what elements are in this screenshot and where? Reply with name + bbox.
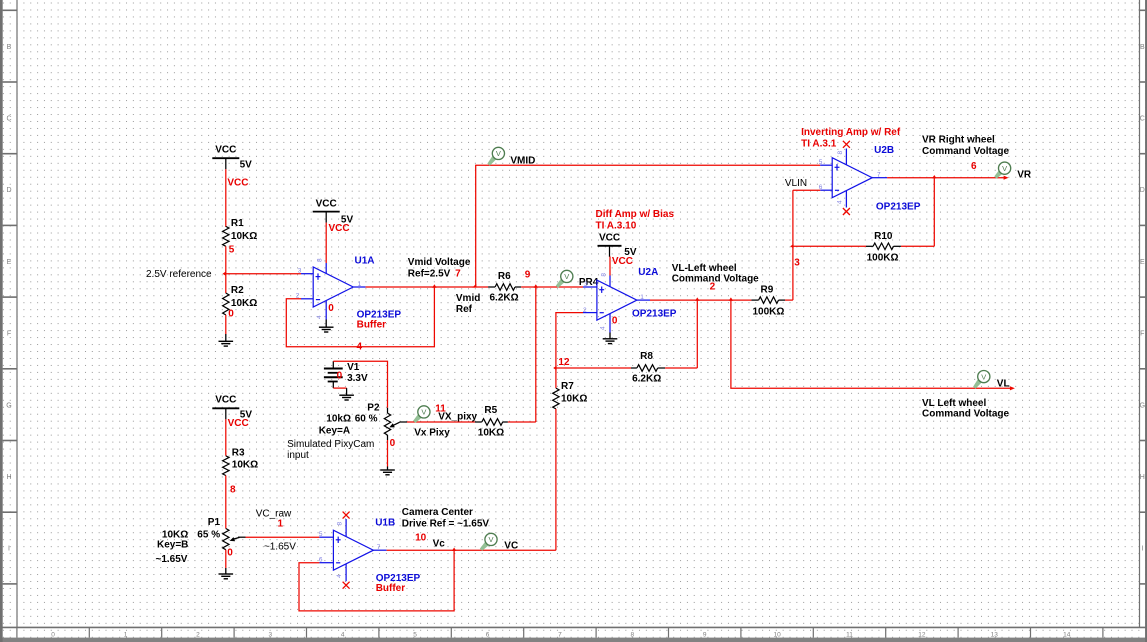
svg-text:P2: P2 [367,402,380,413]
svg-text:D: D [1140,187,1145,194]
svg-text:U2A: U2A [638,267,658,278]
wire U2A output to R9 [650,299,751,301]
pin 1 output stub U1A [353,286,365,288]
resistor R3 [223,456,229,476]
svg-text:V: V [981,372,986,381]
svg-text:2: 2 [710,282,716,293]
pin 3 stub U1A [301,273,313,275]
svg-text:4: 4 [341,631,345,638]
svg-text:7: 7 [558,631,562,638]
svg-text:U1B: U1B [375,518,395,529]
svg-text:R1: R1 [231,218,244,229]
svg-text:100KΩ: 100KΩ [753,306,785,317]
svg-text:8: 8 [630,631,634,638]
junction VMID riser [472,284,476,288]
svg-text:B: B [7,44,12,51]
svg-text:VCC: VCC [612,256,633,267]
wire VCC to U1A pin 8 [325,223,327,263]
op-amp U2B [832,158,872,198]
svg-text:Command Voltage: Command Voltage [922,146,1009,157]
svg-text:Key=A: Key=A [319,426,350,437]
svg-text:VX_pixy: VX_pixy [438,412,477,423]
svg-text:VCC: VCC [215,145,236,156]
svg-text:3: 3 [794,257,800,268]
svg-text:V: V [488,535,493,544]
probe PR4 [556,270,573,288]
probe VC [480,533,497,551]
svg-text:5: 5 [229,244,235,255]
svg-text:0: 0 [51,631,55,638]
svg-text:1: 1 [124,631,128,638]
svg-text:2: 2 [583,307,587,314]
svg-text:OP213EP: OP213EP [632,309,677,320]
svg-text:V: V [421,408,426,417]
pin 2 stub U1A [301,298,313,300]
wire R3 to P1 [225,476,227,529]
wire VLIN to U2B inverting input [793,189,820,191]
svg-text:11: 11 [846,631,853,638]
wire VCC to U2A pin 8 [609,257,611,276]
svg-text:G: G [6,402,11,409]
pin 7 output stub U2B [872,177,887,179]
pin 8 stub U2B (unconnected) [845,149,847,166]
pin 6 stub U2B [820,189,832,191]
ground (U1A pin 4) [319,320,334,333]
svg-text:Vmid Voltage: Vmid Voltage [408,257,471,268]
svg-text:0: 0 [337,371,343,382]
svg-text:VCC: VCC [228,418,249,429]
svg-text:8: 8 [316,258,323,262]
wire R5 to node 9 riser [508,421,536,423]
resistor R8 [631,365,665,372]
svg-text:R6: R6 [498,271,511,282]
svg-text:10KΩ: 10KΩ [232,460,258,471]
wire P2 bottom to ground [387,440,389,467]
wire V1 minus to ground [333,388,346,395]
junction node 9 [534,284,538,287]
svg-text:10KΩ: 10KΩ [478,427,504,438]
svg-text:Vmid: Vmid [456,293,480,304]
resistor R10 [866,243,901,250]
battery V1 [324,361,343,388]
svg-text:65 %: 65 % [197,529,220,540]
svg-text:input: input [287,450,309,461]
svg-text:Drive Ref = ~1.65V: Drive Ref = ~1.65V [402,518,490,529]
svg-text:Diff Amp w/ Bias: Diff Amp w/ Bias [596,209,675,220]
svg-text:2: 2 [196,631,200,638]
svg-text:I: I [1141,546,1143,553]
svg-text:1: 1 [358,281,362,288]
wire node 9 riser down to VX net [535,287,537,422]
svg-text:Simulated PixyCam: Simulated PixyCam [287,439,374,450]
svg-text:R8: R8 [640,351,653,362]
svg-text:10: 10 [415,533,427,544]
svg-text:3.3V: 3.3V [347,373,368,384]
wire VL net [731,300,1012,388]
no-connect X (U2B pin 8) [843,141,850,148]
pin 8 stub U1B (unconnected) [345,519,347,537]
wire P1 bottom to ground [225,550,227,568]
svg-text:2.5V reference: 2.5V reference [146,269,212,280]
svg-text:Ref: Ref [456,304,473,315]
svg-text:6: 6 [486,631,490,638]
pin 4 stub U1A (to ground) [325,301,327,320]
svg-text:VR: VR [1017,169,1032,180]
resistor R2 [223,293,229,315]
wire end arrow (VR) [1004,176,1009,180]
svg-text:0: 0 [228,309,234,320]
label Vmid Ref [456,293,480,315]
svg-text:9: 9 [703,631,707,638]
svg-text:VCC: VCC [599,233,620,244]
svg-text:12: 12 [918,631,926,638]
svg-text:Vc: Vc [433,538,446,549]
wire R8 to output riser [665,367,697,369]
svg-text:OP213EP: OP213EP [876,202,921,213]
svg-text:8: 8 [337,522,344,526]
junction U1A feedback tap [432,284,436,287]
wire U1A feedback (output to inverting input) [286,287,434,347]
svg-text:PR4: PR4 [579,277,599,288]
svg-text:R5: R5 [484,405,497,416]
svg-text:6.2KΩ: 6.2KΩ [490,293,519,304]
wire R1 to node 5 [225,246,227,273]
svg-text:G: G [1140,402,1145,409]
svg-text:Command Voltage: Command Voltage [922,409,1009,420]
wire U1B output to Vc corner [387,549,556,551]
svg-text:9: 9 [525,269,531,280]
pin 1 output stub U2A [637,299,650,301]
svg-text:VLIN: VLIN [785,178,807,189]
svg-text:8: 8 [837,151,844,155]
svg-text:3: 3 [584,281,588,288]
svg-text:R7: R7 [561,381,574,392]
wire end arrow (VL) [1010,386,1015,390]
svg-text:TI A.3.10: TI A.3.10 [596,221,637,232]
svg-text:Command Voltage: Command Voltage [672,274,759,285]
svg-text:14: 14 [1063,631,1071,638]
junction node 12 [553,366,556,370]
wire P2 wiper to R5 [407,421,475,423]
svg-text:VL Left wheel: VL Left wheel [922,398,986,409]
ground (V1) [339,395,354,400]
svg-text:Ref=2.5V: Ref=2.5V [408,269,451,280]
svg-text:10KΩ: 10KΩ [231,231,257,242]
svg-text:F: F [1140,331,1144,338]
svg-text:100KΩ: 100KΩ [867,253,899,264]
svg-text:7: 7 [377,544,381,551]
probe VX_pixy [413,406,430,423]
wire U1B feedback loop [299,550,454,611]
svg-text:10kΩ: 10kΩ [326,414,351,425]
svg-text:R9: R9 [761,285,774,296]
resistor R6 [488,284,521,291]
potentiometer P2 [384,408,407,440]
svg-text:4: 4 [599,326,606,330]
pin 2 stub U2A [583,312,597,314]
pin 5 stub U2B [820,164,832,166]
svg-text:5: 5 [413,631,417,638]
svg-text:H: H [1140,474,1145,481]
power VCC symbol (above U2A) [598,233,622,257]
svg-text:10: 10 [773,631,781,638]
svg-text:7: 7 [877,172,881,179]
power VCC symbol (above U1A) [313,198,340,222]
svg-text:R10: R10 [874,231,893,242]
wire VCC to R3 [225,419,227,456]
svg-text:I: I [8,546,10,553]
svg-text:~1.65V: ~1.65V [264,541,296,552]
wire node 5 to R2 [225,274,227,294]
svg-text:C: C [1140,115,1145,122]
pin 5 stub U1B [319,536,333,538]
op-amp U1B [333,530,373,570]
svg-text:10KΩ: 10KΩ [231,298,257,309]
wire R10 run [793,178,934,247]
no-connect X (U1B pin 4) [343,582,350,589]
svg-text:C: C [6,115,11,122]
svg-text:E: E [7,259,12,266]
svg-text:VL: VL [997,378,1010,389]
label Simulated PixyCam input [287,439,374,461]
pin 4 stub U2A (to ground) [609,314,611,333]
svg-text:R2: R2 [231,285,244,296]
wire R7 to Vc node [555,409,557,550]
wire node 3 riser [792,190,794,300]
svg-text:V1: V1 [347,362,360,373]
svg-text:10KΩ: 10KΩ [561,394,587,405]
svg-text:P1: P1 [208,517,221,528]
pin 4 stub U1B (unconnected) [345,564,347,582]
junction node 5 [223,272,226,276]
svg-text:13: 13 [991,631,999,638]
probe VMID [487,147,504,165]
wire U2B output [887,177,1006,179]
power VCC symbol (top-left) [212,145,239,170]
svg-text:H: H [6,474,11,481]
potentiometer P1 [223,529,246,550]
svg-text:6.2KΩ: 6.2KΩ [632,373,661,384]
junction U1B feedback tap [452,548,456,551]
svg-text:VC: VC [504,541,518,552]
wire node 12 to U2A inverting input [556,313,583,368]
svg-text:VC_raw: VC_raw [256,508,292,519]
svg-text:VR Right wheel: VR Right wheel [922,135,995,146]
wire VCC to R1 [225,169,227,227]
svg-text:V: V [496,149,501,158]
wire node 5 to U1A noninverting input [226,273,301,275]
svg-text:Buffer: Buffer [357,320,387,331]
svg-text:R3: R3 [232,448,245,459]
junction U2B output to R10 [932,175,936,178]
pin 7 output stub U1B [373,549,386,551]
svg-text:V: V [564,272,569,281]
ground (P2) [380,467,395,475]
svg-text:60 %: 60 % [355,414,378,425]
svg-text:6: 6 [971,161,977,172]
wire R2 to ground [225,315,227,334]
pin 8 stub U2A [609,276,611,288]
resistor R7 [553,368,559,409]
svg-text:3: 3 [268,631,272,638]
wire R9 to node 3 riser [785,299,793,301]
svg-text:TI A.3.1: TI A.3.1 [801,139,837,150]
svg-text:0: 0 [612,315,618,326]
svg-text:1: 1 [278,519,284,530]
junction VL drop [729,297,733,300]
wire node 12 run to R8 [556,367,631,369]
svg-text:8: 8 [600,273,607,277]
svg-text:8: 8 [230,485,236,496]
wire P1 wiper to U1B noninverting input [246,536,320,538]
svg-text:0: 0 [328,303,334,314]
svg-text:VCC: VCC [215,395,236,406]
pin 3 stub U2A [583,286,597,288]
svg-text:V: V [1002,164,1007,173]
svg-text:Key=B: Key=B [157,539,188,550]
svg-text:Vx Pixy: Vx Pixy [414,427,450,438]
wire VMID riser and top run to U2B noninverting input [476,165,821,287]
svg-text:4: 4 [316,315,323,319]
svg-text:F: F [7,331,11,338]
svg-text:6: 6 [319,557,323,564]
svg-text:5: 5 [819,159,823,166]
svg-text:VCC: VCC [316,198,337,209]
svg-text:Camera Center: Camera Center [402,507,473,518]
wire R8 riser to U2A output [696,300,698,368]
no-connect X (U2B pin 4) [843,208,850,215]
svg-text:Buffer: Buffer [376,583,406,594]
svg-text:5: 5 [319,531,323,538]
svg-text:~1.65V: ~1.65V [156,554,188,565]
power VCC symbol (above R3) [212,395,239,420]
probe VL [973,371,990,389]
pin 8 stub U1A [325,263,327,274]
no-connect X (U1B pin 8) [343,512,350,519]
svg-text:3: 3 [298,267,302,274]
svg-text:Inverting Amp w/ Ref: Inverting Amp w/ Ref [801,127,901,138]
resistor R5 [475,419,508,426]
pin 6 stub U1B [319,562,333,564]
svg-text:VCC: VCC [329,223,350,234]
svg-text:D: D [6,187,11,194]
ground (P1) [219,568,234,579]
svg-text:E: E [1140,259,1145,266]
svg-text:5V: 5V [240,159,253,170]
svg-text:U2B: U2B [874,145,894,156]
svg-text:B: B [1140,44,1145,51]
ground (below R2) [219,334,234,346]
svg-text:7: 7 [455,269,461,280]
svg-text:VMID: VMID [510,156,535,167]
junction R10 tap [790,244,793,248]
svg-text:0: 0 [390,438,396,449]
op-amp U1A [313,267,353,307]
svg-text:1: 1 [640,294,644,301]
svg-text:4: 4 [836,200,843,204]
op-amp U2A [597,280,637,320]
svg-text:VCC: VCC [227,177,248,188]
wire V1 plus to P2 top [333,361,387,408]
junction R8 riser [695,297,699,300]
resistor R1 [223,226,229,246]
svg-text:4: 4 [336,574,343,578]
svg-text:12: 12 [558,357,570,368]
probe VR [994,162,1010,179]
svg-text:VL-Left wheel: VL-Left wheel [672,263,737,274]
ground (U2A pin 4) [603,333,618,344]
resistor R9 [751,297,785,304]
svg-text:0: 0 [227,547,233,558]
wire U1A output to R6 [366,286,489,288]
pin 4 stub U2B (unconnected) [845,191,847,208]
svg-text:U1A: U1A [355,255,375,266]
wire R6 to U2A noninverting input [521,286,583,288]
